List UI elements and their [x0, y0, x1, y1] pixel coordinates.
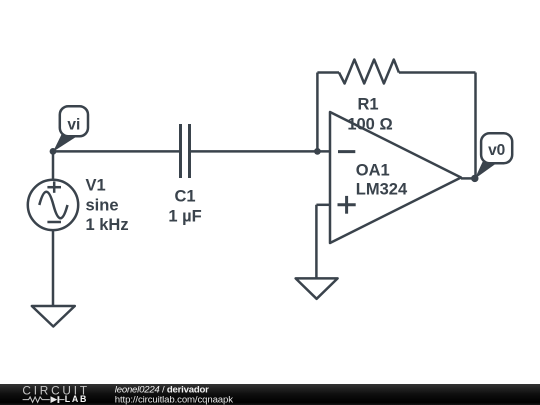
voltage source V1 [28, 180, 78, 230]
node vi junction dot [50, 148, 57, 155]
wire feedback top left (tap to R1) [317, 71, 339, 74]
svg-text:LM324: LM324 [356, 180, 408, 198]
wire from node vi down to V1 positive terminal [52, 151, 55, 180]
flag box for node v0 [481, 133, 512, 163]
flag tail for node vi [53, 134, 76, 152]
svg-text:1 µF: 1 µF [168, 208, 201, 226]
svg-text:v0: v0 [488, 142, 505, 159]
wire feedback top right (R1 to output column) [399, 71, 476, 74]
svg-text:1 kHz: 1 kHz [86, 216, 129, 234]
CircuitLab logo diode [51, 396, 58, 403]
ground (below op-amp plus input) [296, 278, 338, 298]
wire op-amp plus input stub [316, 204, 330, 207]
op-amp minus symbol [338, 150, 355, 153]
flag tail for node v0 [475, 162, 498, 179]
svg-text:sine: sine [86, 196, 119, 214]
svg-text:LAB: LAB [65, 394, 88, 404]
node v0 junction dot [471, 175, 478, 182]
wire feedback vertical tap up from junction [316, 73, 319, 152]
svg-text:OA1: OA1 [356, 161, 390, 179]
svg-text:100 Ω: 100 Ω [347, 116, 392, 134]
ground (below V1) [32, 306, 75, 327]
svg-text:vi: vi [67, 116, 80, 133]
junction node at feedback tap [314, 148, 321, 155]
flag box for node vi [60, 106, 88, 136]
svg-text:R1: R1 [357, 95, 378, 113]
op-amp plus symbol [338, 196, 356, 214]
svg-text:V1: V1 [86, 177, 106, 195]
wire from V1 negative terminal to ground [52, 230, 55, 307]
CircuitLab logo resistor squiggle [23, 397, 50, 402]
wire plus input down to ground [315, 205, 318, 279]
wire input net right segment (C1 right plate to op-amp minus input) [190, 150, 331, 153]
wire feedback right vertical down to output node [474, 73, 477, 179]
wire input net left segment (node vi to C1 left plate) [53, 150, 181, 153]
svg-text:http://circuitlab.com/cqnaapk: http://circuitlab.com/cqnaapk [115, 394, 233, 405]
capacitor C1 [181, 124, 190, 178]
svg-text:C1: C1 [174, 188, 195, 206]
op-amp OA1 [330, 112, 461, 243]
resistor R1 [339, 60, 399, 84]
wire op-amp output stub to node v0 [461, 177, 476, 180]
